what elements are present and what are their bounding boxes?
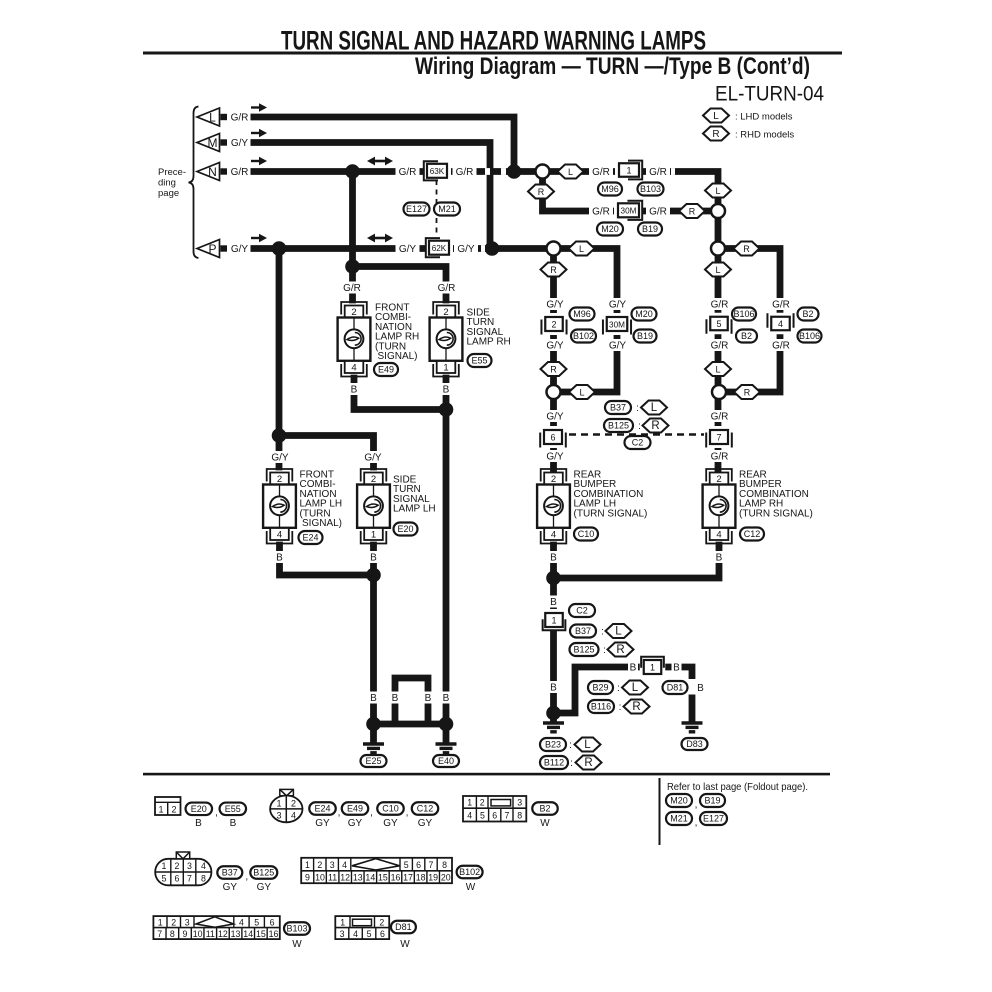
colon B37	[636, 403, 639, 414]
wire colour G/R before 63K	[396, 166, 420, 178]
connector label E49	[374, 363, 398, 376]
connector 30M mid M20/B19	[603, 313, 632, 335]
svg-text:P: P	[208, 242, 216, 256]
svg-text:18: 18	[416, 873, 426, 883]
svg-text:B116: B116	[591, 702, 611, 712]
svg-text:1: 1	[158, 805, 163, 815]
annotation LHD hexagon B37 below	[606, 624, 632, 638]
off-page arrow M	[197, 134, 227, 152]
svg-text:15: 15	[378, 873, 388, 883]
wire rear lamp LH pin4 B down to ground	[550, 545, 557, 721]
svg-text:3: 3	[276, 811, 281, 821]
wire colour B front LH	[275, 551, 285, 563]
connector circle P row left	[547, 242, 561, 256]
comma 3	[370, 807, 373, 818]
svg-text:3: 3	[340, 929, 345, 939]
wire colour G/R at arrow L	[229, 111, 251, 123]
connector face B103	[153, 916, 279, 939]
svg-text:: LHD models: : LHD models	[735, 112, 793, 123]
direction arrow row M	[251, 129, 267, 137]
refer label M20	[666, 794, 692, 807]
wire colour G/Y below 30M mid	[606, 339, 630, 351]
svg-text::: :	[569, 740, 572, 751]
svg-text:B23: B23	[545, 740, 561, 750]
svg-text:5: 5	[367, 929, 372, 939]
svg-text:6: 6	[270, 917, 275, 927]
svg-text:E49: E49	[347, 804, 363, 814]
connector label B102 mid	[571, 330, 596, 343]
svg-text:G/R: G/R	[772, 340, 790, 351]
svg-text:2: 2	[551, 319, 556, 329]
svg-text:R: R	[584, 757, 592, 769]
footer label E55	[220, 803, 247, 816]
svg-text:4: 4	[201, 861, 206, 871]
svg-text:M96: M96	[601, 184, 619, 194]
svg-text:8: 8	[517, 810, 522, 820]
svg-text:B: B	[443, 693, 450, 704]
wire net P G/Y row and 30M column	[251, 249, 617, 393]
wire colour B below connector 1 C2	[549, 681, 559, 693]
svg-text:B: B	[550, 552, 557, 563]
wire net N G/R row and right column down to rear lamp RH	[251, 172, 718, 471]
wire ground stub E25	[370, 724, 377, 742]
wire colour G/R below connector 7	[708, 450, 732, 462]
svg-text:B: B	[630, 662, 637, 673]
connector label E24	[299, 531, 323, 544]
svg-text:M20: M20	[601, 224, 619, 234]
svg-text:G/R: G/R	[231, 112, 249, 123]
svg-text:R: R	[689, 207, 696, 217]
RHD hexagon mid right	[734, 385, 760, 399]
svg-text:4: 4	[551, 530, 556, 541]
svg-text:R: R	[550, 365, 557, 375]
svg-text:L: L	[579, 388, 584, 398]
footer label B103	[284, 922, 310, 935]
connector label B2 at 5	[736, 330, 757, 343]
annotation B23	[540, 738, 566, 751]
wire P junction down to front lamp LH	[276, 249, 283, 468]
connector 1 M96/B103	[615, 159, 643, 181]
svg-text:GY: GY	[418, 818, 433, 829]
annotation B116	[588, 700, 614, 713]
colour W under B2	[540, 818, 550, 829]
svg-text:E25: E25	[365, 756, 381, 766]
svg-text:,: ,	[370, 807, 373, 818]
wire colour B side LH	[369, 551, 379, 563]
colon B29	[617, 683, 620, 694]
legend LHD hexagon	[703, 109, 729, 123]
junction dot ground E40	[439, 717, 454, 732]
colour GY under E49	[348, 818, 363, 829]
connector label B106 at 5	[732, 308, 756, 321]
colour GY under B37	[223, 882, 238, 893]
svg-text:E49: E49	[378, 365, 394, 375]
title rule	[143, 52, 842, 55]
svg-text:D81: D81	[395, 922, 412, 932]
footer rule	[143, 773, 830, 776]
svg-text:B125: B125	[253, 868, 274, 878]
svg-text:6: 6	[175, 874, 180, 884]
wire colour G/Y side LH	[361, 451, 385, 463]
svg-text:M20: M20	[635, 309, 653, 319]
junction dot RH lamps B bus	[439, 402, 454, 417]
svg-text:M21: M21	[670, 814, 688, 824]
svg-text:G/R: G/R	[649, 206, 667, 217]
footer label D81	[391, 921, 416, 934]
connector 63K	[423, 160, 451, 182]
svg-text:G/R: G/R	[711, 411, 729, 422]
wire colour G/Y above connector 6	[543, 410, 567, 422]
dashed connector link 63K to 62K	[436, 180, 438, 238]
svg-text:1: 1	[551, 615, 556, 625]
wire front lamp LH pin4 B to junction	[280, 545, 372, 575]
wire colour B after connector 1 D81	[672, 661, 682, 673]
svg-text:B: B	[195, 818, 202, 829]
svg-text:B: B	[716, 552, 723, 563]
svg-text:R: R	[712, 129, 719, 140]
svg-text:GY: GY	[315, 818, 330, 829]
connector face B2	[463, 796, 526, 822]
svg-text:B: B	[550, 682, 557, 693]
connector label C10	[574, 528, 598, 541]
wire colour G/R after connector 1	[646, 166, 670, 178]
svg-text:M: M	[208, 136, 218, 150]
svg-text:B: B	[276, 552, 283, 563]
svg-text:,: ,	[215, 807, 218, 818]
svg-text:E127: E127	[703, 814, 724, 824]
svg-text:4: 4	[351, 363, 356, 374]
svg-text:10: 10	[193, 929, 203, 939]
svg-text:2: 2	[317, 860, 322, 870]
svg-text:C10: C10	[578, 529, 595, 539]
ground B23/B112	[543, 723, 564, 732]
colour W under B103	[292, 939, 302, 950]
connector 62K	[425, 237, 453, 259]
RHD hexagon below N circle	[528, 185, 554, 199]
wire front lamp RH pin4 B to junction	[354, 378, 444, 410]
svg-text:C10: C10	[382, 804, 399, 814]
wire branch to side lamp RH	[353, 267, 447, 301]
svg-text:G/R: G/R	[456, 167, 474, 178]
svg-text:R: R	[743, 244, 750, 254]
annotation C2 mid	[625, 436, 651, 449]
annotation B29	[588, 681, 613, 694]
junction dot ground B23	[546, 706, 561, 721]
svg-text:G/R: G/R	[399, 167, 417, 178]
svg-text:B19: B19	[704, 796, 720, 806]
svg-text:E40: E40	[438, 756, 454, 766]
annotation LHD hexagon B29	[622, 681, 648, 695]
junction dot rear lamps B bus	[546, 571, 561, 586]
svg-text:14: 14	[243, 929, 253, 939]
svg-text:G/R: G/R	[711, 299, 729, 310]
connector label C12	[740, 528, 764, 541]
svg-text:G/Y: G/Y	[399, 244, 417, 255]
svg-text:G/Y: G/Y	[609, 299, 627, 310]
annotation D81	[663, 681, 688, 694]
svg-text:1: 1	[276, 799, 281, 809]
wire N junction down to front lamp RH	[349, 172, 356, 301]
double direction arrow row N	[367, 157, 393, 166]
annotation B37 below	[570, 625, 596, 638]
wire break P row	[481, 245, 485, 252]
wire colour B at D81	[696, 682, 706, 694]
svg-text:7: 7	[504, 810, 509, 820]
connector face B102	[301, 858, 452, 883]
direction arrow row P	[251, 234, 267, 242]
svg-text:63K: 63K	[430, 167, 445, 176]
svg-text:G/Y: G/Y	[271, 452, 289, 463]
svg-text:G/Y: G/Y	[231, 138, 249, 149]
direction arrow row N	[251, 157, 267, 165]
footer label E24	[309, 802, 336, 815]
svg-text:W: W	[292, 939, 302, 950]
connector 5 B106/B2	[706, 313, 732, 335]
colour W under B102	[466, 882, 476, 893]
wire branch RHD right column via connector 4	[723, 249, 780, 393]
refer label M21	[666, 812, 692, 825]
svg-text:C2: C2	[632, 438, 644, 448]
junction dot P row at x492	[485, 241, 500, 256]
ground E40	[436, 744, 457, 753]
connector 7 C2 right	[706, 426, 732, 448]
wire break at D81 label	[686, 679, 698, 695]
svg-text:20: 20	[441, 873, 451, 883]
wire side lamp RH pin1 B down to ground E40	[443, 378, 450, 724]
connector 1 D81	[640, 656, 666, 678]
svg-text:B: B	[392, 693, 399, 704]
wire colour B front RH	[349, 383, 359, 395]
svg-text:5: 5	[162, 874, 167, 884]
wire colour G/Y above connector 2	[543, 298, 567, 310]
svg-text:16: 16	[391, 873, 401, 883]
svg-text::: :	[601, 626, 604, 637]
svg-text:R: R	[538, 187, 545, 197]
annotation B37	[605, 401, 631, 414]
off-page arrow L	[197, 108, 227, 126]
wire colour G/R before 30M	[589, 205, 613, 217]
svg-text:N: N	[208, 165, 217, 179]
svg-text:B: B	[351, 384, 358, 395]
LHD hexagon above circle right	[705, 362, 731, 376]
footer label B2	[532, 802, 558, 815]
refer label B19	[700, 794, 725, 807]
wire colour G/Y below connector 6	[543, 450, 567, 462]
connector label E55	[468, 354, 492, 367]
svg-text:E55: E55	[471, 356, 487, 366]
wire break after G/R	[671, 168, 675, 175]
LHD hexagon right column upper	[705, 184, 731, 198]
svg-text:Wiring Diagram — TURN —/Type B: Wiring Diagram — TURN —/Type B (Cont’d)	[415, 53, 810, 80]
wire colour G/R before connector 1	[589, 166, 613, 178]
colour B under E20	[195, 818, 202, 829]
svg-text:W: W	[540, 818, 550, 829]
svg-text:7: 7	[157, 929, 162, 939]
svg-text:17: 17	[403, 873, 413, 883]
svg-text:13: 13	[353, 873, 363, 883]
connector 1 C2	[541, 609, 567, 631]
svg-text:L: L	[209, 110, 216, 124]
colour GY under B125	[257, 882, 272, 893]
svg-text:E55: E55	[225, 804, 241, 814]
svg-text:1: 1	[467, 798, 472, 808]
svg-text:R: R	[632, 701, 640, 713]
junction dot ground E25	[366, 717, 381, 732]
svg-text:E20: E20	[191, 804, 207, 814]
wire C2 branch to D81 and ground D83	[554, 667, 693, 721]
wire colour B rear LH	[549, 551, 559, 563]
svg-text:30M: 30M	[621, 207, 637, 216]
svg-text:7: 7	[716, 432, 721, 442]
svg-text:6: 6	[550, 432, 555, 442]
svg-text:10: 10	[315, 873, 325, 883]
svg-text:GY: GY	[348, 818, 363, 829]
svg-text:,: ,	[338, 807, 341, 818]
svg-text:G/Y: G/Y	[546, 299, 564, 310]
svg-text:3: 3	[187, 861, 192, 871]
svg-text:E24: E24	[314, 804, 330, 814]
wire colour G/R below connector 4	[769, 339, 793, 351]
svg-text:2: 2	[291, 799, 296, 809]
svg-text:3: 3	[185, 917, 190, 927]
colon B112	[570, 758, 573, 769]
svg-text:6: 6	[380, 929, 385, 939]
connector label E127	[404, 203, 430, 216]
svg-text:G/Y: G/Y	[231, 244, 249, 255]
svg-text:7: 7	[429, 860, 434, 870]
wire colour G/R after 63K	[453, 166, 477, 178]
svg-text:,: ,	[245, 871, 248, 882]
svg-text:B: B	[443, 384, 450, 395]
footer label E20	[186, 803, 213, 816]
svg-text:E24: E24	[302, 533, 318, 543]
svg-text:E20: E20	[397, 524, 413, 534]
wire side lamp LH pin1 B down to ground E25	[370, 545, 377, 724]
svg-text:G/R: G/R	[592, 167, 610, 178]
svg-text:B: B	[370, 693, 377, 704]
ground E25	[363, 744, 384, 753]
annotation RHD hexagon B116	[624, 700, 650, 714]
connector circle x718 30M row	[711, 204, 725, 218]
annotation LHD hexagon B23	[575, 738, 601, 752]
svg-text:G/R: G/R	[711, 451, 729, 462]
RHD hexagon left column	[541, 263, 567, 277]
colour GY under C12	[418, 818, 433, 829]
svg-text:B2: B2	[539, 804, 550, 814]
svg-text:L: L	[584, 739, 591, 751]
wire colour B bridge left	[390, 692, 400, 704]
svg-text:B: B	[697, 683, 704, 694]
wire colour G/R at arrow N	[229, 166, 251, 178]
connector 30M M20/B19	[614, 199, 643, 221]
svg-text:L: L	[632, 682, 639, 694]
LHD hexagon right column	[705, 263, 731, 277]
svg-text:G/R: G/R	[592, 206, 610, 217]
connector circle P row right	[711, 242, 725, 256]
svg-text:L: L	[579, 244, 584, 254]
svg-text:R: R	[651, 420, 659, 432]
svg-text:R: R	[550, 265, 557, 275]
svg-text:L: L	[568, 167, 573, 177]
svg-text:B125: B125	[608, 421, 629, 431]
wire colour G/Y above 30M mid	[606, 298, 630, 310]
svg-text:,: ,	[695, 799, 698, 810]
svg-text:2: 2	[171, 917, 176, 927]
connector 2 M96/B102	[541, 313, 567, 335]
svg-text:30M: 30M	[609, 320, 625, 329]
svg-text:B102: B102	[459, 867, 480, 877]
connector face D81	[335, 916, 389, 939]
wire colour G/R after 30M	[646, 205, 670, 217]
footer label E49	[342, 802, 369, 815]
svg-text:5: 5	[254, 917, 259, 927]
wire colour G/R above connector 7	[708, 410, 732, 422]
svg-text:G/R: G/R	[711, 340, 729, 351]
off-page arrow N	[197, 163, 227, 181]
RHD hexagon P row right	[734, 242, 760, 256]
svg-text:5: 5	[404, 860, 409, 870]
svg-text:B2: B2	[802, 309, 813, 319]
svg-text:3: 3	[330, 860, 335, 870]
svg-text:2: 2	[171, 805, 176, 815]
connector label B103	[638, 183, 664, 196]
svg-text:1: 1	[162, 861, 167, 871]
RHD hexagon above circle left	[541, 362, 567, 376]
svg-text::: :	[617, 683, 620, 694]
junction dot front/side LH split	[272, 428, 287, 443]
connector 4 B2/B106	[767, 313, 794, 335]
annotation RHD hexagon B112	[576, 756, 602, 770]
svg-text:GY: GY	[383, 818, 398, 829]
wire colour G/Y at arrow M	[229, 137, 251, 149]
wire left column G/Y from circle down to rear lamp LH	[550, 252, 557, 470]
svg-text:B37: B37	[575, 626, 591, 636]
svg-text:4: 4	[778, 319, 783, 329]
wire break pattern before dot	[485, 168, 490, 175]
svg-text:R: R	[744, 388, 751, 398]
junction dot P row at x279	[272, 241, 287, 256]
svg-text:1: 1	[650, 662, 655, 672]
svg-text:D81: D81	[667, 683, 684, 693]
refer label E127	[700, 812, 727, 825]
svg-text:M96: M96	[573, 309, 591, 319]
wire colour G/R front RH	[340, 282, 364, 294]
ground D83	[682, 723, 703, 732]
svg-text:5: 5	[480, 810, 485, 820]
annotation B125 below	[570, 643, 599, 656]
svg-text:62K: 62K	[432, 244, 447, 253]
svg-text:,: ,	[695, 817, 698, 828]
svg-text::: :	[603, 645, 606, 656]
svg-text:B125: B125	[573, 645, 594, 655]
svg-text:B37: B37	[610, 403, 626, 413]
svg-text:GY: GY	[257, 882, 272, 893]
svg-text:2: 2	[175, 861, 180, 871]
footer label B37	[217, 866, 242, 879]
svg-text:B19: B19	[642, 224, 658, 234]
svg-text:4: 4	[277, 530, 282, 541]
svg-text:W: W	[400, 939, 410, 950]
legend RHD hexagon	[703, 127, 729, 141]
colour W under D81	[400, 939, 410, 950]
colon B116	[619, 702, 622, 713]
ground label E40	[433, 755, 459, 767]
svg-text:11: 11	[206, 929, 215, 939]
svg-text:Refer to last page (Foldout pa: Refer to last page (Foldout page).	[667, 782, 808, 793]
svg-text:4: 4	[342, 860, 347, 870]
svg-text:1: 1	[340, 917, 345, 927]
connector label M21	[434, 203, 460, 216]
